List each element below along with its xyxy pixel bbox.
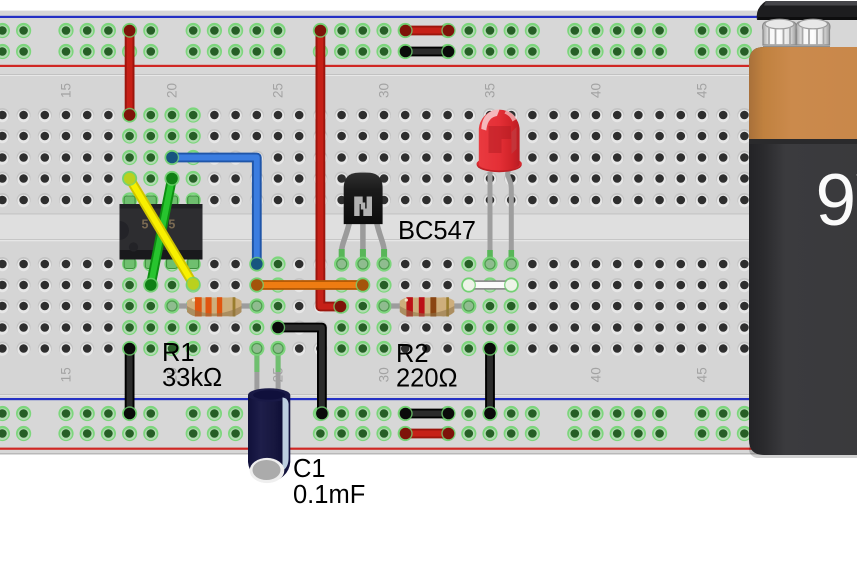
svg-text:15: 15	[59, 367, 74, 382]
svg-text:220Ω: 220Ω	[396, 365, 458, 393]
svg-text:33kΩ: 33kΩ	[162, 364, 222, 392]
svg-text:45: 45	[695, 83, 710, 98]
svg-text:C1: C1	[293, 455, 326, 483]
svg-text:20: 20	[165, 83, 180, 98]
svg-text:30: 30	[377, 367, 392, 382]
svg-text:15: 15	[59, 83, 74, 98]
svg-text:45: 45	[695, 367, 710, 382]
svg-text:30: 30	[377, 83, 392, 98]
svg-text:35: 35	[483, 83, 498, 98]
svg-text:BC547: BC547	[398, 217, 476, 245]
svg-text:40: 40	[589, 83, 604, 98]
svg-text:25: 25	[271, 83, 286, 98]
svg-text:40: 40	[589, 367, 604, 382]
svg-text:0.1mF: 0.1mF	[293, 481, 365, 509]
svg-text:9V: 9V	[816, 160, 857, 241]
svg-text:R1: R1	[162, 339, 195, 367]
